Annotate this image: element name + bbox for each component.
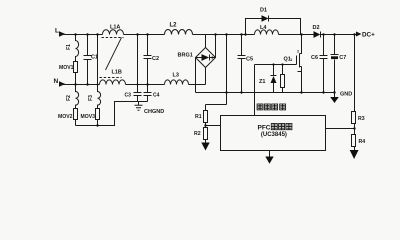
wire controller to R3/R4 junction <box>326 127 356 129</box>
svg-text:C1: C1 <box>91 55 98 61</box>
node L (line input terminal) <box>55 27 65 36</box>
ground arrow below R4 <box>350 150 359 159</box>
svg-text:F3: F3 <box>88 95 94 101</box>
svg-text:C7: C7 <box>339 55 346 61</box>
svg-text:GND: GND <box>340 92 352 98</box>
wire MOV bottom to chassis ground <box>76 102 148 127</box>
inductor L3 <box>165 73 189 85</box>
wire bridge output to DC+ bus <box>206 33 228 104</box>
svg-text:R4: R4 <box>359 139 366 145</box>
resistor gate R <box>281 63 285 92</box>
svg-text:MOV1: MOV1 <box>59 65 74 71</box>
wire neutral rail <box>60 84 206 86</box>
svg-text:L4: L4 <box>260 25 267 31</box>
bridge rectifier BRG1 <box>178 35 216 85</box>
wire bridge left vertex drop <box>195 58 197 93</box>
capacitor C7 (electrolytic) <box>331 33 347 92</box>
diode D2 <box>313 25 321 38</box>
capacitor C1 <box>84 33 99 85</box>
inductor L4 (boost) <box>255 25 279 34</box>
svg-text:D2: D2 <box>313 25 320 31</box>
varistor MOV1 <box>59 62 78 86</box>
chassis ground CHGND <box>135 102 165 115</box>
svg-text:DC+: DC+ <box>362 31 375 38</box>
svg-text:R3: R3 <box>358 116 365 122</box>
svg-text:MOV3: MOV3 <box>81 114 96 120</box>
svg-text:PFC: PFC <box>258 125 271 132</box>
svg-text:1: 1 <box>290 58 292 62</box>
svg-text:L3: L3 <box>173 73 179 79</box>
varistor MOV3 <box>81 109 100 126</box>
diode D1 (bypass) <box>244 8 300 36</box>
resistor R2 <box>194 128 208 143</box>
transistor Q1 (MOSFET) <box>284 33 303 93</box>
node DC+ (output terminal) <box>356 31 375 38</box>
wire gate drive <box>255 65 297 116</box>
svg-text:R1: R1 <box>195 114 202 120</box>
label control signal (Chinese) <box>257 104 286 110</box>
wire DC- return rail <box>196 92 335 94</box>
svg-text:L1B: L1B <box>112 70 122 76</box>
svg-text:D1: D1 <box>260 8 267 14</box>
capacitor C3 (Y-cap) <box>125 33 142 101</box>
svg-text:C4: C4 <box>153 93 160 99</box>
svg-text:C5: C5 <box>246 57 253 63</box>
svg-text:F1: F1 <box>66 44 72 50</box>
svg-text:(UC3845): (UC3845) <box>261 132 287 138</box>
svg-text:BRG1: BRG1 <box>178 53 193 59</box>
label PFC controller text <box>258 125 287 139</box>
svg-text:C2: C2 <box>152 56 159 62</box>
svg-text:L1A: L1A <box>110 25 120 31</box>
wire controller output arrow <box>265 151 273 164</box>
resistor R1 <box>195 105 208 128</box>
ground GND (primary) <box>330 91 352 103</box>
choke L1 core (dashed) <box>100 38 124 78</box>
svg-text:MOV2: MOV2 <box>58 114 73 120</box>
node N (neutral input terminal) <box>54 78 66 87</box>
capacitor C2 (X-cap) <box>144 33 160 92</box>
capacitor C4 (Y-cap) <box>144 93 160 102</box>
resistor R4 <box>352 135 366 151</box>
svg-text:2: 2 <box>297 50 299 54</box>
fuse F1 <box>66 33 79 61</box>
capacitor C6 <box>311 33 328 93</box>
resistor R3 <box>352 33 365 134</box>
inductor L1B (common-mode choke winding) <box>100 70 126 85</box>
zener Z1 <box>259 63 277 92</box>
wire R1-R2 junction to controller <box>204 124 220 126</box>
fuse F2 <box>66 85 79 109</box>
ground arrow below R2 <box>201 143 209 151</box>
label PFC controller Chinese glyphs <box>271 124 292 130</box>
svg-text:C3: C3 <box>125 93 132 99</box>
svg-text:L2: L2 <box>170 23 178 29</box>
svg-text:Z1: Z1 <box>259 79 265 85</box>
wire top rail (L / DC+ bus) <box>60 34 357 36</box>
capacitor C5 <box>238 33 254 93</box>
inductor L1A (common-mode choke winding) <box>103 25 124 35</box>
svg-text:C6: C6 <box>311 55 318 61</box>
fuse F3 <box>88 33 101 108</box>
varistor MOV2 <box>58 109 78 126</box>
svg-text:N: N <box>54 78 59 85</box>
op-amp U1 PFC controller box <box>221 116 326 151</box>
svg-text:L: L <box>55 27 59 34</box>
svg-text:CHGND: CHGND <box>144 109 164 115</box>
inductor L2 <box>165 23 193 35</box>
svg-text:F2: F2 <box>66 95 72 101</box>
svg-text:R2: R2 <box>194 131 201 137</box>
